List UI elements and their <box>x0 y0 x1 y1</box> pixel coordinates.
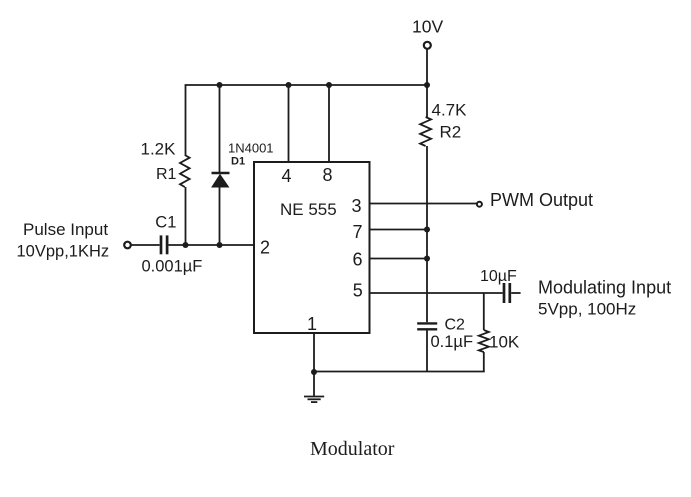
svg-text:1N4001: 1N4001 <box>228 141 274 156</box>
resistor R1 <box>180 85 190 245</box>
svg-text:5Vpp, 100Hz: 5Vpp, 100Hz <box>538 300 636 319</box>
svg-text:10V: 10V <box>412 17 443 37</box>
wire pin8 to top rail <box>328 85 330 162</box>
svg-text:7: 7 <box>353 222 363 242</box>
svg-text:0.001µF: 0.001µF <box>142 258 203 276</box>
svg-text:NE 555: NE 555 <box>280 200 337 219</box>
svg-text:1.2K: 1.2K <box>141 140 177 159</box>
svg-text:Pulse Input: Pulse Input <box>23 220 108 239</box>
wire pin1 to ground <box>313 333 315 397</box>
node junction pin7 <box>424 227 430 233</box>
wire pin4 to top rail <box>288 85 290 162</box>
wire 10V supply drop <box>426 49 428 85</box>
svg-text:PWM Output: PWM Output <box>490 190 593 210</box>
svg-text:C2: C2 <box>445 317 466 334</box>
svg-text:5: 5 <box>353 281 363 301</box>
wire input to C1 <box>132 244 160 246</box>
svg-text:C1: C1 <box>155 214 176 232</box>
wire pin7 <box>370 229 428 231</box>
wire C1 to pin2 <box>169 244 255 246</box>
svg-text:10K: 10K <box>489 333 520 352</box>
power terminal circle 10V <box>424 42 431 49</box>
svg-text:4: 4 <box>282 166 292 186</box>
node junction top rail / pin8 <box>326 82 332 88</box>
node junction pin2 / D1 <box>217 242 223 248</box>
op-amp U1 NE555 body <box>254 162 370 333</box>
wire R2 bottom down to C2 <box>426 146 428 322</box>
node junction top rail / D1 <box>217 82 223 88</box>
capacitor C1 <box>161 235 167 254</box>
svg-text:Modulator: Modulator <box>310 438 395 460</box>
wire modulating input stub <box>511 292 520 294</box>
wire pin6 <box>370 258 428 260</box>
resistor 10K <box>479 293 489 372</box>
input terminal circle <box>124 242 131 249</box>
svg-text:8: 8 <box>323 165 333 185</box>
svg-text:3: 3 <box>352 196 362 216</box>
wire pin3 to PWM output <box>370 203 477 205</box>
capacitor C2 <box>417 323 437 329</box>
node junction top rail / pin4 <box>286 82 292 88</box>
wire bottom rail <box>314 371 485 373</box>
node junction top rail / R2 <box>424 82 430 88</box>
wire C2 bottom to ground rail <box>426 331 428 372</box>
node junction pin6 <box>424 256 430 262</box>
svg-text:1: 1 <box>307 314 317 334</box>
capacitor 10uF coupling <box>504 283 510 303</box>
svg-text:6: 6 <box>353 250 363 270</box>
svg-text:D1: D1 <box>231 156 245 168</box>
ground <box>304 397 324 403</box>
svg-text:10µF: 10µF <box>480 268 517 285</box>
resistor R2 <box>420 85 431 146</box>
node junction pin1 / ground rail <box>311 369 317 375</box>
diode D1 <box>212 85 230 245</box>
svg-text:R1: R1 <box>156 166 177 183</box>
svg-text:10Vpp,1KHz: 10Vpp,1KHz <box>17 243 110 261</box>
wire top rail <box>185 84 427 86</box>
svg-text:0.1µF: 0.1µF <box>431 333 474 351</box>
node junction pin2 / R1 <box>183 242 189 248</box>
svg-text:Modulating Input: Modulating Input <box>538 278 671 298</box>
output terminal circle PWM <box>477 202 482 207</box>
svg-text:R2: R2 <box>440 123 462 142</box>
wire pin5 to coupling cap <box>370 292 503 294</box>
svg-text:2: 2 <box>260 238 270 258</box>
svg-text:4.7K: 4.7K <box>432 101 468 120</box>
